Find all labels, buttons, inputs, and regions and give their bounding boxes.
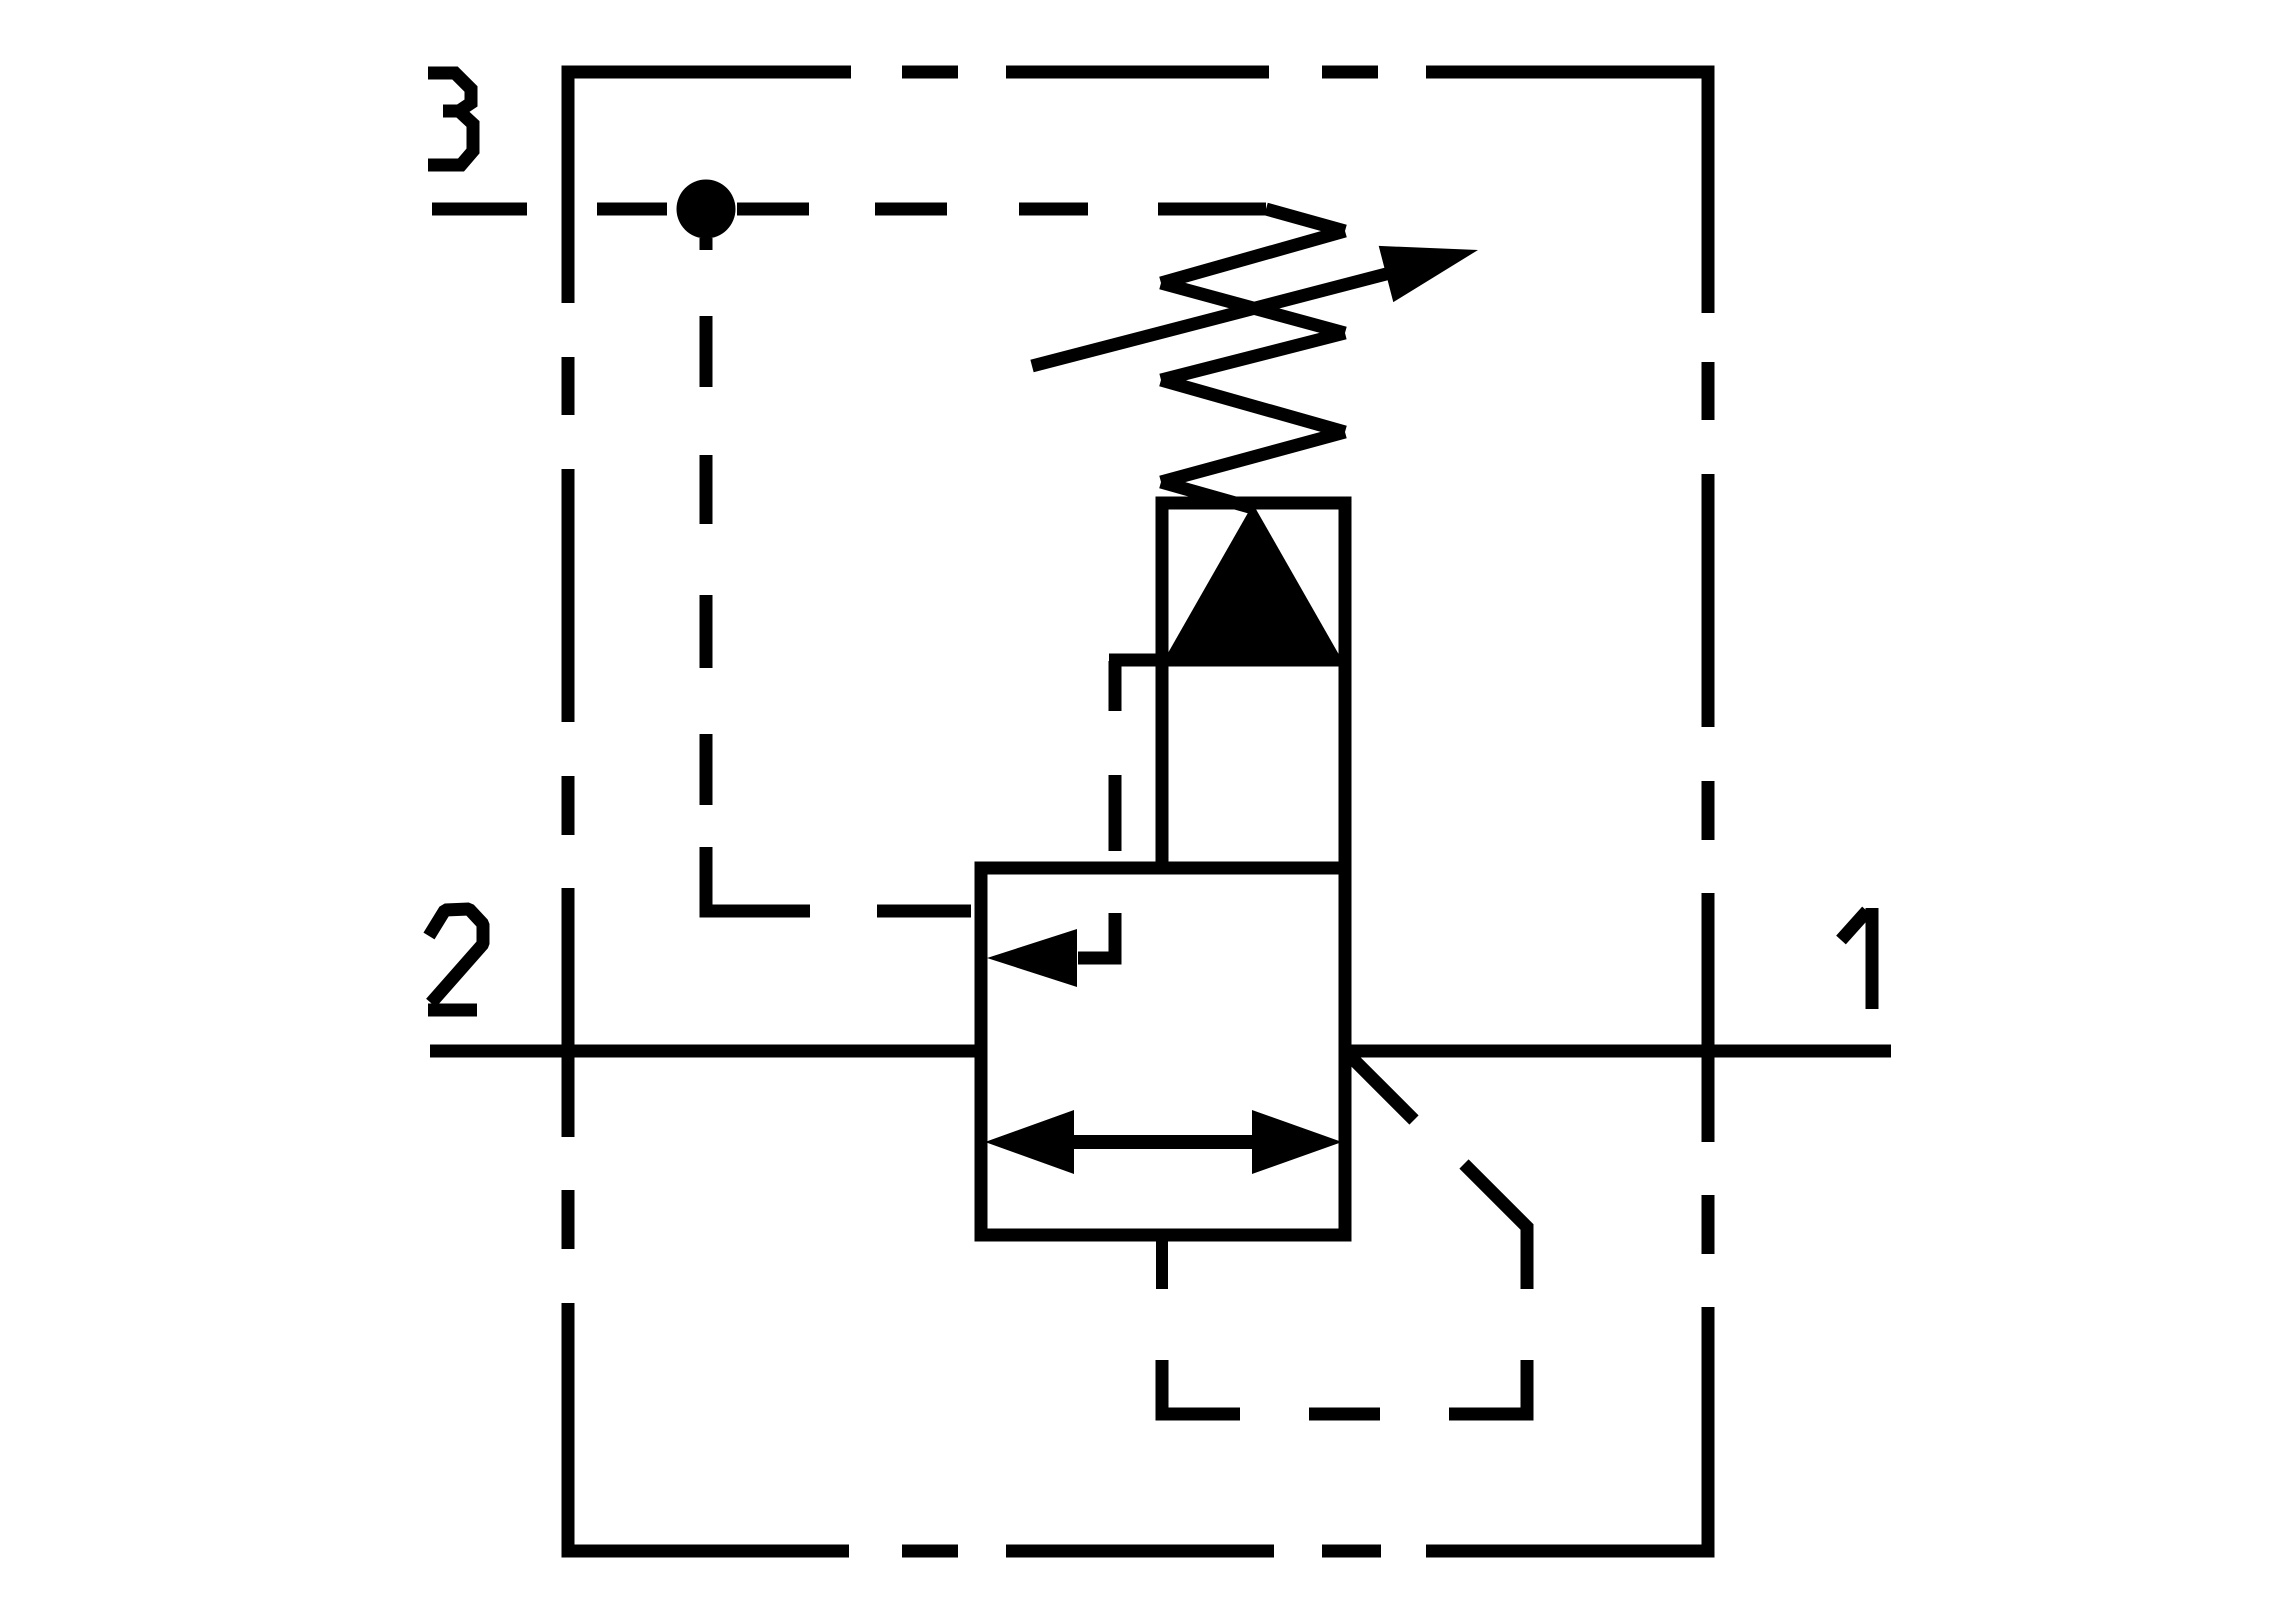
spring adjustment arrow shaft <box>1032 273 1390 366</box>
main valve body <box>981 868 1345 1235</box>
drain stub below body <box>1156 1235 1168 1289</box>
double arrow right head <box>1252 1110 1342 1174</box>
flow triangle in pilot box <box>1164 504 1342 660</box>
double-headed arrow shaft <box>1074 1135 1252 1149</box>
diagonal pilot dash A from main line <box>1351 1057 1414 1120</box>
port 1 label <box>1841 908 1872 1009</box>
drain dashed loop right corner <box>1449 1360 1527 1414</box>
pilot valve box (upper rectangle) <box>1162 503 1345 868</box>
triangle base bar with left step <box>1109 654 1345 667</box>
spring adjustment arrowhead <box>1379 246 1478 302</box>
internal pilot dashed line from base bar <box>1078 661 1115 958</box>
main flow line port 1 side <box>1345 1045 1891 1058</box>
drain dashed loop middle dash <box>1309 1408 1380 1421</box>
junction dot on pilot line <box>677 180 736 239</box>
main flow line port 2 side <box>430 1045 975 1058</box>
drain dashed loop left corner <box>1162 1360 1240 1414</box>
pilot branch dashed vertical below dot <box>706 238 971 911</box>
double arrow left head <box>985 1110 1074 1174</box>
port 2 label <box>428 909 483 1010</box>
enclosure border bottom (dash-dot) <box>562 1545 1715 1558</box>
enclosure border left (dash-dot) <box>562 66 575 1558</box>
internal pilot arrowhead (points left) <box>987 929 1077 987</box>
diagonal pilot dash B with corner <box>1464 1164 1527 1289</box>
enclosure border top (dash-dot) <box>562 66 1715 79</box>
port 3 pilot line (dashed, y=209) <box>432 203 1088 216</box>
enclosure border right (dash-dot) <box>1702 66 1715 1558</box>
port 3 label <box>428 73 473 165</box>
spring (zigzag) <box>1158 209 1345 508</box>
